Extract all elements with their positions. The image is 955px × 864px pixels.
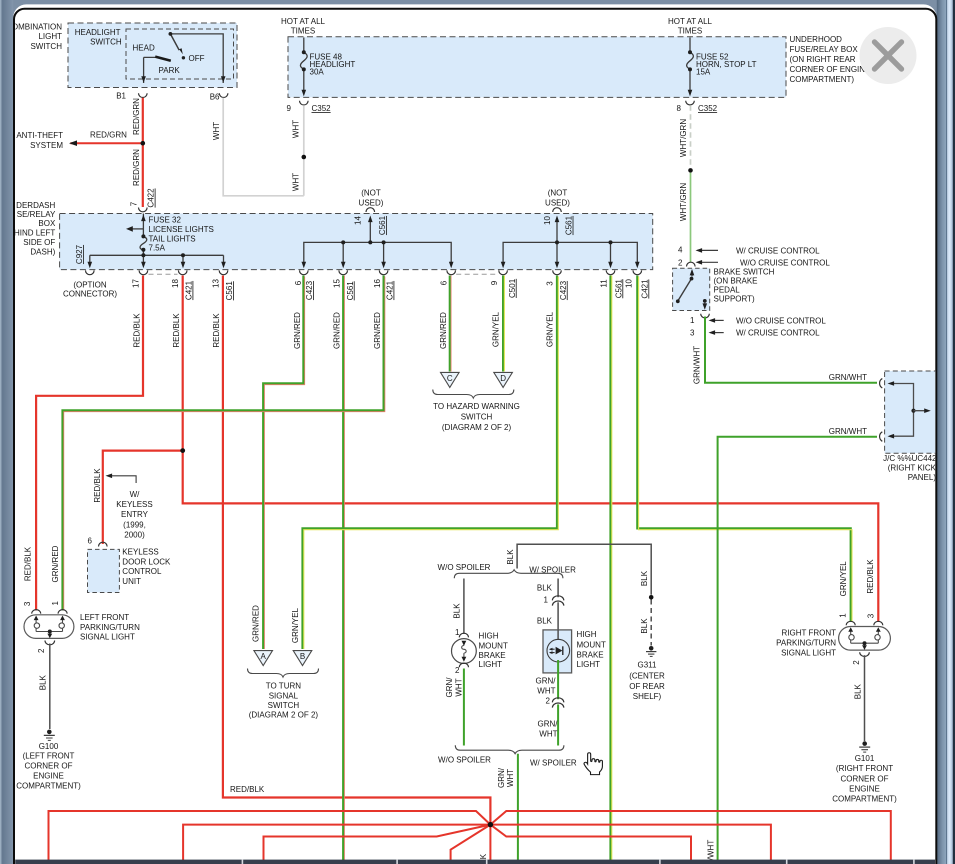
- svg-text:4: 4: [678, 246, 683, 255]
- svg-text:SWITCH: SWITCH: [461, 412, 493, 421]
- svg-text:16: 16: [373, 279, 382, 288]
- svg-text:GRN/YEL: GRN/YEL: [491, 311, 500, 347]
- triangle D: [494, 372, 513, 387]
- svg-text:BLK: BLK: [640, 570, 649, 586]
- wire red down from junction: [489, 825, 491, 864]
- terminal number labels: [132, 278, 650, 300]
- svg-text:2: 2: [37, 648, 46, 653]
- ground G311: [629, 646, 665, 701]
- wire WHT from B6 to C352 pin 9: [212, 98, 304, 196]
- wire RED/GRN from B1 to C422: [132, 98, 143, 207]
- svg-text:(DIAGRAM 2 OF 2): (DIAGRAM 2 OF 2): [249, 711, 319, 720]
- svg-text:USED): USED): [545, 199, 570, 208]
- svg-text:15A: 15A: [696, 67, 711, 76]
- right dark edge: [953, 0, 955, 864]
- svg-text:C421: C421: [185, 280, 194, 300]
- svg-text:(1999,: (1999,: [123, 521, 146, 530]
- keyless entry annotation arrow: [106, 474, 153, 540]
- svg-text:WHT: WHT: [539, 730, 557, 739]
- svg-text:GRN/WHT: GRN/WHT: [692, 346, 701, 384]
- triangle B: [293, 651, 312, 666]
- svg-text:GRN/: GRN/: [445, 677, 454, 698]
- svg-text:GRN/: GRN/: [497, 767, 506, 788]
- fuse 32: [126, 214, 214, 269]
- headlight switch contacts and wiper: [144, 34, 224, 83]
- svg-text:SIDE OF: SIDE OF: [23, 238, 55, 247]
- wire red right to x890: [490, 811, 890, 864]
- dashed connector links: [149, 273, 499, 275]
- wire RED/BLK terminal 13 to junction: [212, 276, 490, 824]
- svg-text:8: 8: [677, 104, 682, 113]
- svg-text:RED/BLK: RED/BLK: [212, 313, 221, 348]
- svg-text:(ON BRAKE: (ON BRAKE: [714, 276, 758, 285]
- triangle C: [441, 372, 460, 387]
- svg-text:BLK: BLK: [537, 584, 553, 593]
- svg-text:UNIT: UNIT: [122, 577, 141, 586]
- svg-text:GRN/RED: GRN/RED: [251, 605, 260, 642]
- wire RED/BLK terminal 17 to left light pin 3: [24, 276, 143, 611]
- svg-text:CONTROL: CONTROL: [122, 567, 162, 576]
- svg-text:7: 7: [129, 201, 138, 206]
- triangle A: [254, 651, 273, 666]
- svg-text:RED/GRN: RED/GRN: [90, 131, 127, 140]
- svg-text:GRN/RED: GRN/RED: [293, 312, 302, 349]
- left chrome band: [0, 0, 13, 864]
- svg-text:ENGINE: ENGINE: [33, 771, 64, 780]
- svg-text:C561: C561: [225, 281, 234, 301]
- svg-text:BOX: BOX: [38, 219, 56, 228]
- wire red right to x691: [490, 825, 691, 864]
- svg-text:WHT/GRN: WHT/GRN: [679, 119, 688, 157]
- svg-text:WHT: WHT: [506, 769, 515, 787]
- svg-text:LIGHT: LIGHT: [38, 32, 62, 41]
- svg-text:SIGNAL: SIGNAL: [269, 691, 299, 700]
- svg-text:COMPARTMENT): COMPARTMENT): [16, 782, 81, 791]
- svg-text:W/O SPOILER: W/O SPOILER: [438, 563, 491, 572]
- svg-text:2: 2: [678, 258, 683, 267]
- svg-text:G100: G100: [39, 742, 59, 751]
- svg-text:GRN/WHT: GRN/WHT: [829, 427, 867, 436]
- brake switch contacts: [676, 269, 707, 310]
- svg-text:C561: C561: [378, 215, 387, 235]
- svg-text:PARKING/TURN: PARKING/TURN: [80, 623, 140, 632]
- wire GRN/RED terminal 16 to left light pin 1: [51, 276, 385, 611]
- svg-text:ENTRY: ENTRY: [121, 510, 149, 519]
- svg-text:KEYLESS: KEYLESS: [122, 548, 158, 557]
- svg-text:COMPARTMENT): COMPARTMENT): [832, 795, 897, 804]
- svg-text:BLK: BLK: [39, 674, 48, 690]
- svg-text:W/ CRUISE CONTROL: W/ CRUISE CONTROL: [736, 329, 820, 338]
- wire BLK high mount brake lights to G311: [506, 544, 651, 595]
- svg-text:GRN/RED: GRN/RED: [51, 545, 60, 582]
- svg-text:GRN/RED: GRN/RED: [373, 312, 382, 349]
- svg-text:HIGH: HIGH: [479, 632, 499, 641]
- bottom red wire cluster: [49, 811, 891, 864]
- svg-text:SWITCH: SWITCH: [90, 38, 122, 47]
- svg-text:TIMES: TIMES: [291, 26, 315, 35]
- svg-text:DERDASH: DERDASH: [16, 201, 55, 210]
- close button: [860, 27, 917, 84]
- svg-text:ENGINE: ENGINE: [849, 784, 880, 793]
- svg-text:TO HAZARD WARNING: TO HAZARD WARNING: [433, 402, 520, 411]
- svg-text:BLK: BLK: [537, 616, 553, 625]
- svg-text:B: B: [300, 652, 305, 661]
- svg-text:B6: B6: [210, 92, 220, 101]
- underhood fuse/relay box: [288, 37, 786, 98]
- license/tail bus right (terminals 9,3,11,10): [501, 216, 640, 269]
- fuse 48: [300, 38, 355, 97]
- svg-text:C423: C423: [559, 280, 568, 300]
- svg-text:GRN/RED: GRN/RED: [333, 312, 342, 349]
- svg-text:LIGHT: LIGHT: [479, 660, 503, 669]
- svg-text:3: 3: [545, 281, 554, 286]
- svg-text:WHT/GRN: WHT/GRN: [679, 183, 688, 221]
- not used connector 14 C561: [353, 189, 387, 236]
- svg-text:PARK: PARK: [159, 66, 181, 75]
- svg-text:1: 1: [544, 595, 549, 604]
- svg-text:C423: C423: [305, 280, 314, 300]
- svg-text:6: 6: [294, 280, 303, 285]
- svg-text:SHELF): SHELF): [633, 692, 662, 701]
- svg-text:LIGHT: LIGHT: [577, 660, 601, 669]
- svg-text:KEYLESS: KEYLESS: [116, 500, 152, 509]
- svg-text:C421: C421: [640, 279, 649, 299]
- svg-text:2: 2: [546, 697, 551, 706]
- wire GRN/WHT brake switch to J/C: [692, 317, 877, 385]
- svg-text:GRN/RED: GRN/RED: [439, 312, 448, 349]
- svg-text:UNDERHOOD: UNDERHOOD: [790, 35, 843, 44]
- svg-text:OFF: OFF: [189, 54, 205, 63]
- svg-text:WHT: WHT: [291, 120, 300, 138]
- hazard brace and label: [433, 390, 520, 432]
- svg-text:CORNER OF ENGINE: CORNER OF ENGINE: [790, 65, 871, 74]
- turn signal brace and label: [248, 669, 319, 720]
- wire GRN/WHT w/ spoiler lamp down: [536, 660, 564, 746]
- terminal B6: [210, 92, 228, 101]
- svg-text:W/O SPOILER: W/O SPOILER: [438, 756, 491, 765]
- bottom connector strip: [15, 860, 935, 864]
- svg-text:DASH): DASH): [30, 247, 55, 256]
- spoiler option brace upper: [438, 563, 577, 579]
- svg-text:3: 3: [690, 329, 695, 338]
- switch position labels: [133, 43, 205, 75]
- wire GRN/RED terminal 6 to triangle A: [251, 276, 304, 650]
- fuse 32 output bus: [88, 253, 226, 268]
- svg-text:2: 2: [852, 660, 861, 665]
- mouse hand cursor: [584, 753, 602, 775]
- svg-text:(CENTER: (CENTER: [629, 671, 665, 680]
- right scrollbar light strip: [947, 0, 953, 864]
- svg-text:(NOT: (NOT: [548, 189, 568, 198]
- svg-text:C561: C561: [565, 215, 574, 235]
- wire GRN/YEL terminal 9 to triangle D: [491, 276, 504, 372]
- headlight switch inner box: [75, 28, 234, 79]
- svg-text:10: 10: [543, 216, 552, 225]
- svg-text:(RIGHT FRONT: (RIGHT FRONT: [836, 764, 893, 773]
- wire red left riser x183: [183, 825, 488, 864]
- svg-text:6: 6: [88, 537, 93, 546]
- HOT AT ALL TIMES label right: [668, 17, 713, 36]
- HOT AT ALL TIMES label left: [281, 17, 326, 36]
- svg-text:FUSE/RELAY BOX: FUSE/RELAY BOX: [790, 45, 859, 54]
- right front parking/turn signal light: [776, 613, 890, 665]
- svg-text:SWITCH: SWITCH: [268, 701, 300, 710]
- svg-text:MOUNT: MOUNT: [577, 641, 606, 650]
- svg-text:GRN/WHT: GRN/WHT: [829, 373, 867, 382]
- combination light switch outer box: [12, 22, 237, 87]
- wire GRN/YEL terminal 10 to right light pin 1: [637, 276, 852, 623]
- underdash box label: [14, 201, 56, 256]
- svg-text:J/C %%UC442: J/C %%UC442: [883, 454, 937, 463]
- svg-text:(NOT: (NOT: [361, 189, 381, 198]
- svg-text:(RIGHT KICK: (RIGHT KICK: [888, 464, 937, 473]
- svg-text:FUSE 32: FUSE 32: [149, 215, 182, 224]
- svg-text:3: 3: [23, 601, 32, 606]
- wire GRN/YEL terminal 3 to triangle B: [291, 276, 558, 650]
- svg-text:BLK: BLK: [506, 549, 515, 565]
- svg-text:2: 2: [455, 666, 460, 675]
- wire GRN/WHT w/o spoiler lamp down: [445, 669, 464, 746]
- junction node keyless branch: [180, 448, 185, 453]
- underhood box label: [790, 35, 871, 84]
- spoiler option brace lower: [438, 745, 577, 767]
- terminal arcs under underdash box: [139, 270, 641, 274]
- svg-text:RED/GRN: RED/GRN: [132, 98, 141, 135]
- junction node B1/anti-theft: [141, 141, 146, 146]
- svg-text:WHT: WHT: [455, 678, 464, 696]
- svg-text:C501: C501: [508, 278, 517, 298]
- connector 7 C422: [129, 188, 155, 212]
- svg-text:CORNER OF: CORNER OF: [841, 774, 889, 783]
- left front parking/turn signal light: [23, 601, 140, 654]
- svg-text:GRN/: GRN/: [538, 720, 559, 729]
- svg-text:GRN/YEL: GRN/YEL: [291, 607, 300, 643]
- svg-text:G311: G311: [638, 661, 658, 670]
- svg-text:A: A: [261, 652, 267, 661]
- connector C927 (option connector): [63, 244, 117, 298]
- svg-text:RIGHT FRONT: RIGHT FRONT: [781, 628, 836, 637]
- svg-text:C: C: [447, 374, 453, 383]
- svg-text:11: 11: [599, 279, 608, 288]
- svg-text:W/O CRUISE CONTROL: W/O CRUISE CONTROL: [736, 316, 826, 325]
- svg-text:PARKING/TURN: PARKING/TURN: [776, 638, 836, 647]
- svg-text:B1: B1: [116, 91, 126, 100]
- svg-text:1: 1: [690, 316, 695, 325]
- svg-text:GRN/: GRN/: [536, 677, 557, 686]
- svg-text:13: 13: [212, 279, 221, 288]
- svg-text:RED/BLK: RED/BLK: [133, 313, 142, 348]
- ground G100: [16, 730, 81, 791]
- svg-text:USED): USED): [359, 199, 384, 208]
- not used connector 10 C561: [543, 189, 574, 236]
- svg-text:BLK: BLK: [640, 618, 649, 634]
- wire GRN/WHT from bottom to J/C: [706, 427, 877, 864]
- underdash fuse/relay box: [60, 214, 653, 270]
- svg-text:RED/BLK: RED/BLK: [866, 559, 875, 594]
- wire WHT/GRN splice to brake switch: [679, 173, 690, 263]
- wire GRN/YEL terminal 11 to bottom: [611, 276, 612, 861]
- wire red left riser x263: [264, 825, 491, 864]
- svg-text:3: 3: [867, 613, 876, 618]
- svg-text:BRAKE SWITCH: BRAKE SWITCH: [714, 267, 775, 276]
- svg-text:HIND LEFT: HIND LEFT: [14, 229, 55, 238]
- svg-text:9: 9: [287, 104, 292, 113]
- svg-text:G101: G101: [855, 754, 875, 763]
- svg-text:C352: C352: [312, 104, 332, 113]
- svg-text:17: 17: [132, 279, 141, 288]
- svg-text:(ON RIGHT REAR: (ON RIGHT REAR: [790, 55, 856, 64]
- brake switch pin 4/2 labels and arrows: [678, 246, 830, 268]
- svg-text:C561: C561: [346, 281, 355, 301]
- svg-text:COMPARTMENT): COMPARTMENT): [790, 75, 855, 84]
- svg-text:WHT: WHT: [212, 122, 221, 140]
- splice node on WHT wire: [302, 155, 307, 160]
- svg-text:PEDAL: PEDAL: [714, 286, 741, 295]
- svg-text:ANTI-THEFT: ANTI-THEFT: [16, 131, 63, 140]
- svg-text:6: 6: [440, 280, 449, 285]
- svg-text:LEFT FRONT: LEFT FRONT: [80, 613, 129, 622]
- ground G101: [832, 741, 897, 803]
- svg-text:TO TURN: TO TURN: [266, 682, 301, 691]
- splice node BLK: [649, 595, 654, 600]
- svg-text:SIGNAL LIGHT: SIGNAL LIGHT: [80, 633, 135, 642]
- svg-text:HEADLIGHT: HEADLIGHT: [75, 28, 121, 37]
- svg-text:GRN/YEL: GRN/YEL: [546, 311, 555, 347]
- svg-text:SUPPORT): SUPPORT): [714, 295, 756, 304]
- svg-text:CONNECTOR): CONNECTOR): [63, 289, 117, 298]
- svg-text:BLK: BLK: [854, 683, 863, 699]
- svg-text:HIGH: HIGH: [577, 630, 597, 639]
- svg-text:BRAKE: BRAKE: [577, 650, 604, 659]
- wire GRN/RED terminal 15 to bottom: [333, 276, 345, 861]
- svg-text:9: 9: [490, 280, 499, 285]
- keyless door lock control unit: [88, 537, 171, 593]
- svg-text:D: D: [500, 374, 506, 383]
- svg-text:RED/GRN: RED/GRN: [132, 149, 141, 186]
- splice node WHT/GRN: [688, 168, 693, 173]
- w/o spoiler high mount brake light: [452, 579, 508, 676]
- svg-text:14: 14: [353, 216, 362, 225]
- svg-text:RED/BLK: RED/BLK: [93, 468, 102, 503]
- svg-text:MOUNT: MOUNT: [479, 641, 508, 650]
- fuse 52: [687, 38, 757, 97]
- connector 8 C352: [677, 101, 718, 113]
- anti-theft system label: [16, 131, 63, 150]
- wire GRN/RED terminal 6 to triangle C: [439, 276, 451, 372]
- brake switch pin 1/3 labels and arrows: [690, 314, 826, 338]
- svg-text:RED/BLK: RED/BLK: [172, 313, 181, 348]
- svg-text:1: 1: [839, 613, 848, 618]
- wire red left riser x48: [49, 811, 491, 864]
- svg-text:C422: C422: [147, 188, 156, 208]
- wire BLK dashed to G311: [640, 600, 651, 646]
- svg-text:PANEL): PANEL): [908, 473, 937, 482]
- svg-text:HEAD: HEAD: [133, 43, 155, 52]
- svg-text:OMBINATION: OMBINATION: [12, 22, 62, 31]
- svg-text:SIGNAL LIGHT: SIGNAL LIGHT: [781, 648, 836, 657]
- svg-text:W/ SPOILER: W/ SPOILER: [529, 565, 576, 574]
- svg-text:(DIAGRAM 2 OF 2): (DIAGRAM 2 OF 2): [442, 423, 512, 432]
- svg-text:LICENSE LIGHTS: LICENSE LIGHTS: [149, 225, 214, 234]
- wire WHT/GRN fuse52 to splice: [679, 105, 690, 168]
- wire RED/BLK branch to keyless unit: [93, 451, 183, 544]
- svg-text:30A: 30A: [310, 67, 325, 76]
- svg-text:18: 18: [171, 279, 180, 288]
- wire BLK left light to G100: [39, 644, 50, 730]
- svg-text:SYSTEM: SYSTEM: [30, 141, 63, 150]
- svg-text:7.5A: 7.5A: [149, 244, 166, 253]
- svg-text:15: 15: [332, 279, 341, 288]
- brake switch box: [673, 267, 775, 310]
- junction node bottom cluster: [488, 822, 493, 827]
- svg-text:BLK: BLK: [452, 603, 461, 619]
- svg-text:C352: C352: [698, 104, 718, 113]
- w/ spoiler high mount brake light: [537, 579, 606, 673]
- svg-text:W/ CRUISE CONTROL: W/ CRUISE CONTROL: [736, 246, 820, 255]
- svg-text:C421: C421: [386, 280, 395, 300]
- wire BLK right light to G101: [854, 655, 865, 741]
- svg-text:1: 1: [51, 601, 60, 606]
- svg-text:GRN/YEL: GRN/YEL: [839, 561, 848, 597]
- svg-text:DOOR LOCK: DOOR LOCK: [122, 557, 171, 566]
- svg-text:OF REAR: OF REAR: [629, 682, 665, 691]
- svg-text:W/ SPOILER: W/ SPOILER: [530, 759, 577, 768]
- right chrome slate band: [937, 0, 947, 864]
- anti-theft branch wire RED/GRN: [69, 131, 143, 146]
- svg-text:2000): 2000): [124, 531, 145, 540]
- svg-text:W/O CRUISE CONTROL: W/O CRUISE CONTROL: [740, 258, 830, 267]
- junction connector J/C box: [880, 371, 937, 482]
- svg-text:HOT AT ALL: HOT AT ALL: [668, 17, 713, 26]
- svg-text:TAIL LIGHTS: TAIL LIGHTS: [149, 234, 196, 243]
- svg-text:C927: C927: [75, 244, 84, 264]
- svg-text:RED/BLK: RED/BLK: [230, 785, 265, 794]
- wire GRN/WHT brace to bottom: [497, 754, 518, 860]
- svg-text:W/: W/: [130, 490, 141, 499]
- svg-text:10: 10: [624, 279, 633, 288]
- terminal B1: [116, 91, 147, 100]
- svg-text:CORNER OF: CORNER OF: [25, 762, 73, 771]
- svg-text:RED/BLK: RED/BLK: [24, 546, 33, 581]
- wire red diagonal to x450: [451, 825, 491, 864]
- svg-text:SWITCH: SWITCH: [30, 42, 62, 51]
- svg-text:(OPTION: (OPTION: [73, 280, 107, 289]
- wire RED/BLK terminal 18 to right light pin 3: [172, 276, 878, 623]
- wire red right to x770: [492, 825, 771, 864]
- svg-text:C561: C561: [614, 279, 623, 299]
- svg-text:WHT: WHT: [291, 173, 300, 191]
- svg-text:HOT AT ALL: HOT AT ALL: [281, 17, 326, 26]
- license/tail bus left (terminals 6,15,16,6): [302, 216, 454, 269]
- svg-text:TIMES: TIMES: [678, 26, 702, 35]
- svg-text:SE/RELAY: SE/RELAY: [17, 210, 56, 219]
- svg-text:(LEFT FRONT: (LEFT FRONT: [23, 752, 75, 761]
- svg-text:BRAKE: BRAKE: [479, 651, 506, 660]
- svg-text:WHT: WHT: [537, 687, 555, 696]
- connector 9 C352: [287, 101, 332, 113]
